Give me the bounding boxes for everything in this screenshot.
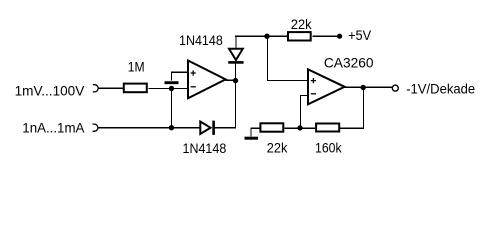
svg-text:1mV...100V: 1mV...100V [15, 82, 85, 98]
ground symbol (bottom, R3) [251, 128, 260, 136]
wire vertical through node B (diode D1 cathode down to lower rail corner) [235, 63, 237, 128]
svg-text:160k: 160k [315, 140, 342, 156]
svg-text:CA3260: CA3260 [324, 55, 374, 71]
svg-text:1nA...1mA: 1nA...1mA [22, 119, 85, 135]
op-amp U1 [188, 61, 226, 99]
wire J1 to R1 [98, 87, 123, 89]
wire D2 cathode to vertical rail corner [214, 127, 237, 129]
wire U2 - input down to node D [301, 96, 308, 128]
node B junction dot [233, 78, 238, 83]
wire R3 to R4 [285, 127, 316, 129]
diode D1 1N4148 (vertical, pointing down) [229, 49, 243, 60]
resistor R3 22k (bottom) [260, 123, 283, 131]
D2 cathode bar [212, 121, 215, 135]
wire U1 output to node B [226, 79, 236, 81]
feedback wire R4 to node F [340, 88, 364, 129]
resistor R4 160k [316, 124, 339, 132]
svg-text:22k: 22k [291, 16, 313, 32]
output terminal (open circle) [392, 85, 398, 91]
+5V terminal dot [337, 34, 342, 39]
wire R2 to +5V terminal [313, 35, 339, 37]
svg-text:1N4148: 1N4148 [183, 140, 227, 156]
lower rail wire J2 to diode D2 [98, 127, 200, 129]
D1 cathode bar [228, 61, 243, 64]
wire U2 output to output terminal [345, 86, 393, 88]
ground bar (bottom) [245, 137, 259, 140]
svg-text:1N4148: 1N4148 [179, 32, 223, 48]
node C junction dot [264, 34, 269, 39]
node F junction dot [361, 85, 366, 90]
svg-text:-1V/Dekade: -1V/Dekade [406, 81, 475, 97]
input terminal J1 (1mV...100V) [93, 85, 98, 92]
svg-text:22k: 22k [267, 140, 289, 156]
node E junction dot [169, 125, 174, 130]
wire node A down to lower rail [171, 89, 173, 128]
ground bar (U1 + input) [165, 81, 179, 84]
op-amp U2 CA3260 [308, 69, 345, 104]
U1 + pin mark [191, 70, 196, 75]
U1 - pin mark [191, 86, 196, 88]
node D junction dot [297, 125, 302, 130]
resistor R1 1M [124, 84, 147, 93]
svg-text:+5V: +5V [348, 27, 372, 43]
U2 - pin mark [311, 93, 316, 95]
wire D1 anode up to top rail [235, 36, 237, 48]
wire U1 + input to ground [172, 72, 188, 80]
U2 + pin mark [311, 78, 316, 83]
node A junction dot [169, 86, 174, 91]
diode D2 1N4148 (horizontal, pointing right) [200, 122, 210, 135]
svg-text:1M: 1M [128, 58, 145, 74]
wire R1 to op-amp U1 inverting input [149, 88, 188, 90]
wire node C down to U2 + input [268, 37, 308, 81]
top rail wire to R2 [235, 35, 287, 37]
input terminal J2 (1nA...1mA) [93, 124, 98, 131]
resistor R2 22k (top) [288, 32, 311, 40]
